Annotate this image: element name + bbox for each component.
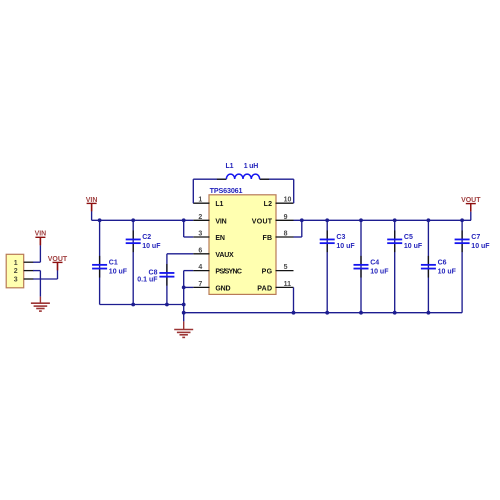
svg-text:VIN: VIN [215,218,226,225]
svg-text:10 uF: 10 uF [142,243,161,250]
svg-text:4: 4 [198,264,202,271]
svg-text:8: 8 [284,231,288,238]
svg-text:C5: C5 [404,234,413,241]
svg-text:1: 1 [14,260,18,267]
svg-text:C2: C2 [142,234,151,241]
svg-text:10 uF: 10 uF [438,268,457,275]
svg-text:6: 6 [198,247,202,254]
svg-text:10 uF: 10 uF [336,243,355,250]
svg-text:10 uF: 10 uF [404,243,423,250]
svg-text:FB: FB [262,235,272,242]
svg-text:GND: GND [215,285,230,292]
svg-text:1: 1 [198,197,202,204]
svg-text:VOUT: VOUT [461,197,481,204]
svg-text:TPS63061: TPS63061 [210,186,243,195]
svg-text:VOUT: VOUT [48,256,68,263]
svg-text:5: 5 [284,264,288,271]
svg-text:VOUT: VOUT [252,218,273,225]
svg-text:0.1 uF: 0.1 uF [137,277,158,284]
svg-text:C3: C3 [336,234,345,241]
svg-text:VAUX: VAUX [215,252,234,259]
svg-text:VIN: VIN [35,231,47,238]
svg-text:PAD: PAD [257,285,272,292]
svg-text:L1: L1 [215,201,223,208]
svg-text:PS/SYNC: PS/SYNC [215,269,241,276]
svg-text:C8: C8 [149,269,158,276]
svg-text:10 uF: 10 uF [109,268,128,275]
svg-text:1 uH: 1 uH [244,163,259,170]
svg-text:11: 11 [284,281,292,288]
svg-text:9: 9 [284,214,288,221]
svg-text:10 uF: 10 uF [471,243,490,250]
svg-text:L1: L1 [226,163,234,170]
svg-text:7: 7 [198,281,202,288]
svg-text:2: 2 [14,268,18,275]
svg-text:10: 10 [284,197,292,204]
svg-text:L2: L2 [264,201,273,208]
svg-text:PG: PG [262,269,273,276]
svg-text:3: 3 [14,277,18,284]
svg-text:3: 3 [198,231,202,238]
svg-text:C4: C4 [370,259,379,266]
svg-text:C1: C1 [109,259,118,266]
svg-text:10 uF: 10 uF [370,268,389,275]
svg-text:2: 2 [198,214,202,221]
svg-text:C6: C6 [438,259,447,266]
svg-text:C7: C7 [471,234,480,241]
svg-text:VIN: VIN [86,197,98,204]
svg-text:EN: EN [215,235,224,242]
